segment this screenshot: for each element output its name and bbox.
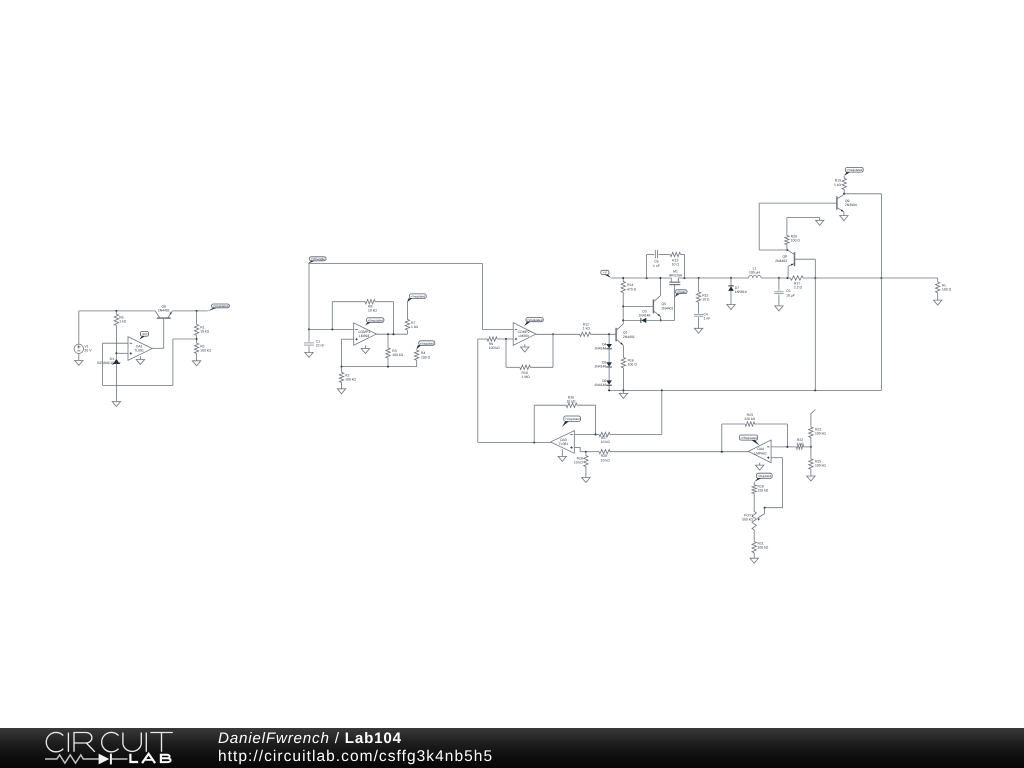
svg-text:470 Ω: 470 Ω <box>627 287 637 291</box>
svg-text:100 kΩ: 100 kΩ <box>815 463 826 467</box>
svg-text:TL081: TL081 <box>559 442 569 446</box>
svg-text:+Vregulated: +Vregulated <box>420 341 434 345</box>
svg-text:1N5819: 1N5819 <box>735 290 747 294</box>
svg-text:10 Ω: 10 Ω <box>672 263 680 267</box>
svg-text:+10V: +10V <box>141 332 148 336</box>
svg-text:+VRegulated: +VRegulated <box>740 436 757 440</box>
svg-text:10 kΩ: 10 kΩ <box>200 330 209 334</box>
svg-text:1N4148: 1N4148 <box>639 314 651 318</box>
svg-text:LMP661: LMP661 <box>754 451 767 455</box>
svg-text:+Vregulated: +Vregulated <box>758 474 772 478</box>
svg-text:IRF520A: IRF520A <box>669 274 683 278</box>
svg-text:220 kΩ: 220 kΩ <box>744 417 755 421</box>
svg-text:500 kΩ: 500 kΩ <box>742 518 753 522</box>
svg-text:1 nF: 1 nF <box>653 264 660 268</box>
svg-text:100 kΩ: 100 kΩ <box>815 432 826 436</box>
svg-text:+Vregulated: +Vregulated <box>847 168 863 172</box>
svg-text:+Vregulated: +Vregulated <box>411 294 426 298</box>
svg-text:TL081: TL081 <box>134 348 144 352</box>
svg-text:1 nF: 1 nF <box>704 317 711 321</box>
svg-text:+Vgate: +Vgate <box>676 290 686 294</box>
svg-text:10 µF: 10 µF <box>786 293 795 297</box>
svg-text:2N4401: 2N4401 <box>662 306 674 310</box>
svg-text:100 µH: 100 µH <box>749 271 761 275</box>
svg-text:LM393: LM393 <box>359 334 369 338</box>
svg-text:100 kΩ: 100 kΩ <box>345 377 356 381</box>
svg-text:2.2 Ω: 2.2 Ω <box>794 285 803 289</box>
svg-text:1 MΩ: 1 MΩ <box>522 375 531 379</box>
svg-text:100 kΩ: 100 kΩ <box>392 353 403 357</box>
svg-text:220 kΩ: 220 kΩ <box>758 489 769 493</box>
svg-text:2N4403: 2N4403 <box>775 259 787 263</box>
svg-text:100 Ω: 100 Ω <box>942 288 952 292</box>
svg-text:10 kΩ: 10 kΩ <box>601 440 610 444</box>
svg-text:1 kΩ: 1 kΩ <box>119 319 127 323</box>
svg-text:100 kΩ: 100 kΩ <box>200 348 211 352</box>
svg-text:1 kΩ: 1 kΩ <box>411 325 419 329</box>
svg-text:+Vregulated: +Vregulated <box>213 304 229 308</box>
svg-text:+Vregulated: +Vregulated <box>527 318 543 322</box>
svg-text:+Vregulated: +Vregulated <box>368 318 384 322</box>
svg-text:1N4148: 1N4148 <box>594 383 606 387</box>
svg-text:2N4401: 2N4401 <box>623 335 635 339</box>
svg-text:LM393: LM393 <box>518 334 528 338</box>
svg-text:100 kΩ: 100 kΩ <box>758 546 769 550</box>
svg-text:100 Ω: 100 Ω <box>628 363 638 367</box>
svg-text:10 kΩ: 10 kΩ <box>574 461 583 465</box>
svg-text:100 Ω: 100 Ω <box>421 355 431 359</box>
svg-text:20 V: 20 V <box>85 349 93 353</box>
svg-text:1 kΩ: 1 kΩ <box>796 442 804 446</box>
svg-text:+Vregulated: +Vregulated <box>565 417 580 421</box>
svg-text:+Vtriangle: +Vtriangle <box>310 257 325 261</box>
svg-text:1 kΩ: 1 kΩ <box>834 183 842 187</box>
svg-text:100 Ω: 100 Ω <box>791 239 801 243</box>
svg-text:2N4401: 2N4401 <box>158 308 170 312</box>
svg-text:100 kΩ: 100 kΩ <box>489 346 500 350</box>
svg-text:22 nF: 22 nF <box>316 344 325 348</box>
svg-text:10 kΩ: 10 kΩ <box>368 309 377 313</box>
svg-text:10 Ω: 10 Ω <box>702 298 710 302</box>
svg-text:1N4148: 1N4148 <box>594 365 606 369</box>
svg-text:BZX84C10: BZX84C10 <box>97 361 114 365</box>
svg-text:2N3904: 2N3904 <box>845 203 857 207</box>
svg-text:10 kΩ: 10 kΩ <box>601 458 610 462</box>
svg-text:1 kΩ: 1 kΩ <box>583 327 591 331</box>
svg-text:1N4148: 1N4148 <box>594 347 606 351</box>
svg-text:10 kΩ: 10 kΩ <box>567 399 576 403</box>
